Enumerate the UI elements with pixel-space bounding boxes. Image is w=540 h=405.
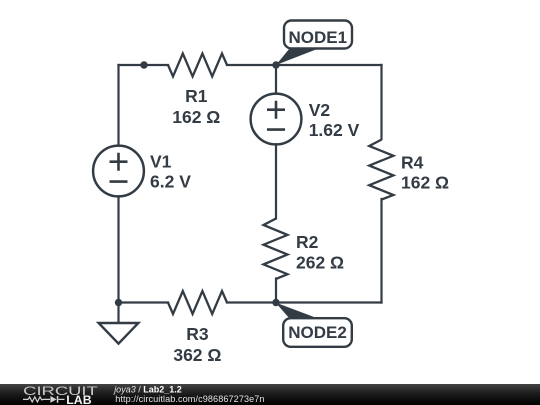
footer logo symbol (23, 397, 65, 402)
svg-text:V2: V2 (309, 100, 331, 120)
voltage source V2 (251, 94, 302, 145)
resistor R4 (369, 140, 393, 200)
svg-text:V1: V1 (150, 152, 172, 172)
resistor R1 (168, 54, 227, 77)
footer bar (0, 384, 540, 405)
voltage source V1 (93, 146, 144, 197)
wire bottom-left horizontal (119, 301, 169, 303)
svg-text:R2: R2 (296, 232, 319, 252)
wire V2 to R2 (275, 144, 277, 218)
wire left upper vertical (117, 65, 119, 146)
svg-text:NODE2: NODE2 (288, 323, 347, 342)
wire V2 top lead (275, 65, 277, 94)
svg-text:162 Ω: 162 Ω (172, 107, 220, 127)
wire top-left horizontal (119, 64, 169, 66)
svg-text:R4: R4 (401, 153, 424, 173)
svg-text:LAB: LAB (66, 393, 91, 405)
junction node NODE2 dot (272, 299, 279, 306)
svg-text:NODE1: NODE1 (289, 28, 348, 47)
svg-text:362 Ω: 362 Ω (173, 345, 221, 365)
wire bottom-right horizontal (227, 301, 382, 303)
svg-text:6.2 V: 6.2 V (150, 172, 191, 192)
wire R2 bottom lead (275, 279, 277, 303)
svg-text:R1: R1 (185, 86, 208, 106)
svg-text:262 Ω: 262 Ω (296, 252, 344, 272)
ground (99, 303, 139, 344)
wire top-right horizontal (227, 64, 382, 66)
node NODE1 flag (276, 21, 352, 66)
svg-text:162 Ω: 162 Ω (401, 173, 449, 193)
node NODE2 flag (276, 303, 352, 347)
resistor R3 (168, 291, 227, 314)
wire right upper vertical (380, 65, 382, 139)
svg-text:http://circuitlab.com/c9868672: http://circuitlab.com/c986867273e7n (115, 394, 264, 404)
junction dot bottom-left (115, 299, 122, 306)
resistor R2 (264, 219, 288, 279)
wire right lower vertical (380, 199, 382, 303)
junction dot top-left (140, 61, 147, 68)
wire left lower vertical (117, 196, 119, 302)
svg-text:R3: R3 (186, 324, 209, 344)
junction node NODE1 dot (272, 61, 279, 68)
svg-text:1.62 V: 1.62 V (309, 120, 360, 140)
